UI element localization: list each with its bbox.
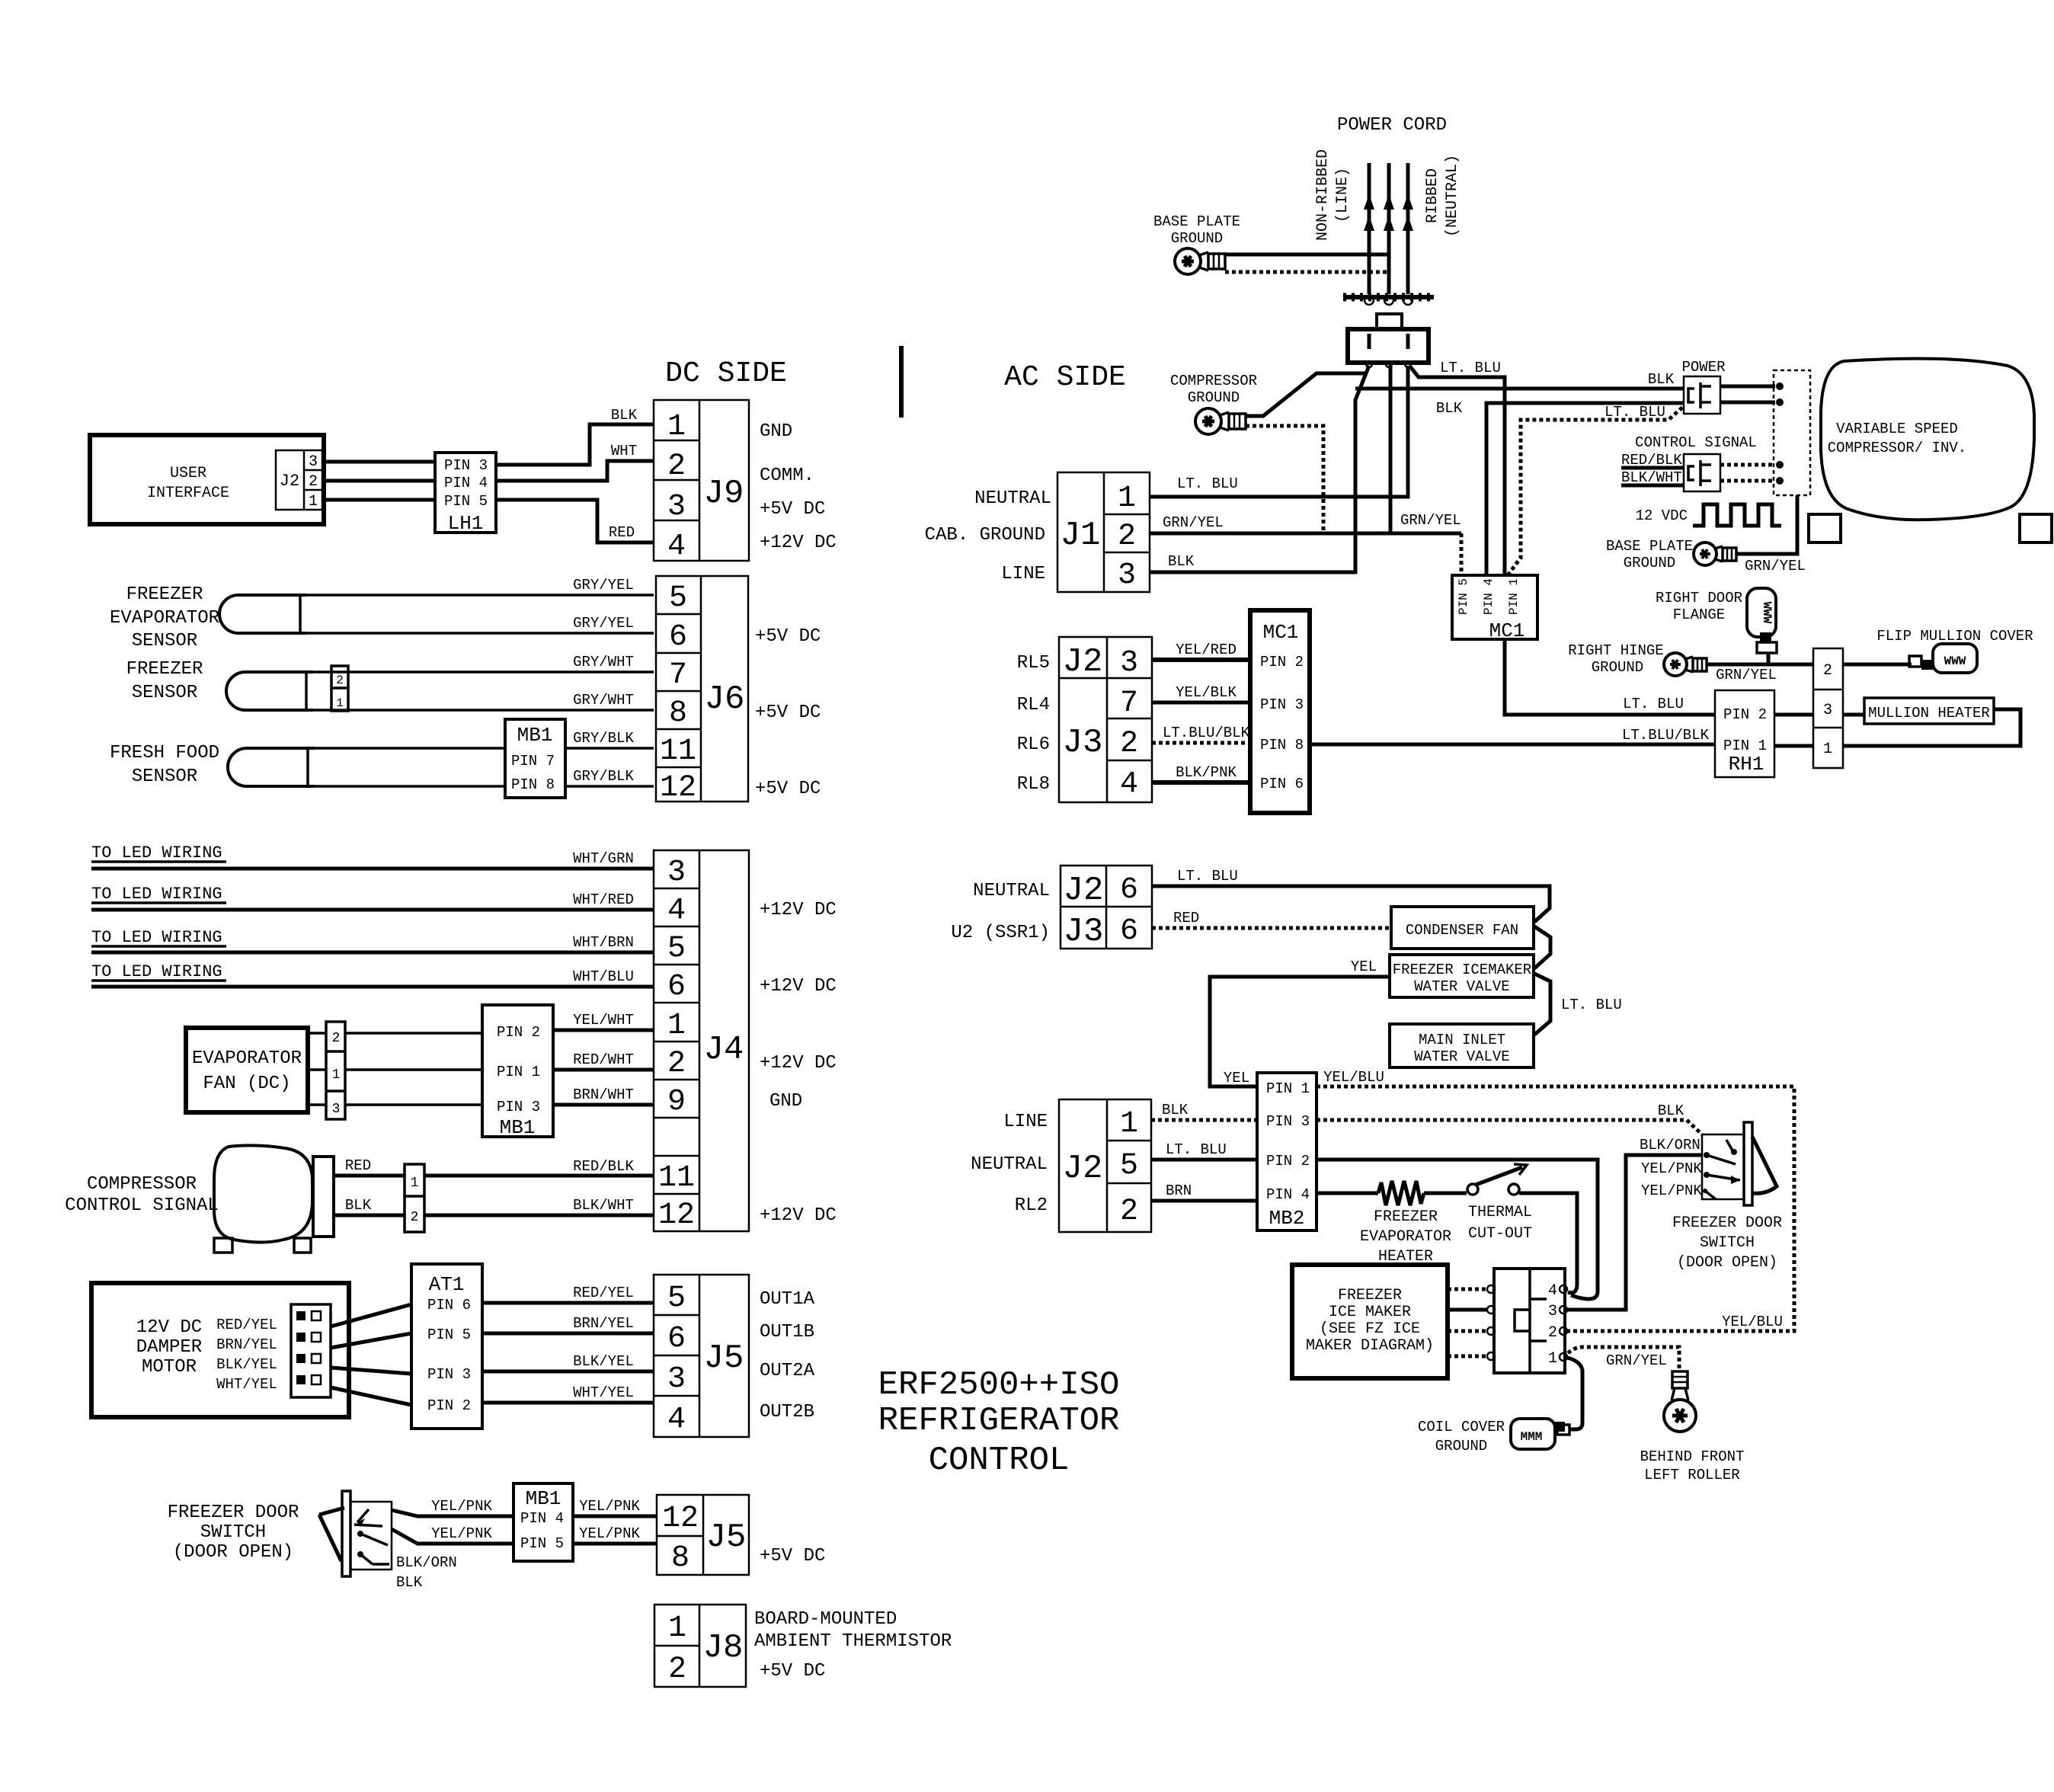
wire LT. BLU chain fan to icemaker valve (1534, 926, 1550, 968)
thermal cut-out switch (1467, 1164, 1527, 1195)
MAIN INLET WATER VALVE box (1390, 1024, 1534, 1067)
compressor control signal label (65, 1174, 219, 1216)
12V DC damper motor box (91, 1283, 349, 1417)
svg-text:WHT/YEL: WHT/YEL (573, 1384, 634, 1401)
svg-text:GROUND: GROUND (1592, 659, 1643, 676)
freezer evaporator sensor bulb (219, 595, 306, 633)
base plate ground label (power cord) (1153, 213, 1240, 247)
svg-text:+12V DC: +12V DC (760, 1053, 837, 1074)
wire damper to AT1 PIN5 (331, 1333, 411, 1348)
svg-text:PIN 4: PIN 4 (520, 1510, 564, 1527)
svg-text:OUT1A: OUT1A (760, 1289, 815, 1310)
svg-text:(LINE): (LINE) (1334, 168, 1352, 222)
svg-text:SENSOR: SENSOR (132, 631, 197, 651)
svg-text:(DOOR OPEN): (DOOR OPEN) (173, 1542, 293, 1563)
wire ice maker to connector t1 (1448, 1352, 1495, 1360)
svg-text:3: 3 (309, 453, 318, 471)
svg-text:BLK/ORN: BLK/ORN (396, 1554, 457, 1571)
base plate ground lug (inverter) (1694, 542, 1736, 565)
wire base plate ground to cord (upper) (1225, 253, 1387, 257)
svg-text:MULLION HEATER: MULLION HEATER (1868, 705, 1990, 722)
svg-text:FREEZER DOOR: FREEZER DOOR (1672, 1214, 1782, 1232)
wire GRY/YEL to J6 pin6 (306, 615, 654, 633)
svg-text:RIGHT HINGE: RIGHT HINGE (1568, 642, 1663, 659)
wire line branch to MC1 PIN4 (1486, 403, 1684, 577)
wire TO LED WIRING 4 (WHT/BLU) to J4 pin6 (91, 962, 654, 987)
wire mullion connector 2 to flip mullion cover (1843, 663, 1912, 667)
svg-text:6: 6 (667, 1322, 686, 1356)
svg-text:YEL/BLU: YEL/BLU (1323, 1069, 1384, 1086)
svg-text:PIN 5: PIN 5 (520, 1535, 564, 1552)
inverter foot right (2020, 514, 2052, 542)
svg-text:VARIABLE SPEED: VARIABLE SPEED (1836, 421, 1958, 437)
svg-text:YEL/PNK: YEL/PNK (431, 1525, 492, 1542)
svg-text:OUT1B: OUT1B (760, 1322, 814, 1342)
wire J2-3 to LH1 PIN3 (322, 460, 435, 464)
svg-text:+12V DC: +12V DC (760, 533, 837, 553)
svg-text:EVAPORATOR: EVAPORATOR (192, 1048, 302, 1069)
svg-text:DC SIDE: DC SIDE (665, 357, 787, 390)
svg-text:RL6: RL6 (1017, 734, 1050, 755)
svg-text:J8: J8 (703, 1629, 744, 1667)
label YEL/PNK (AC switch upper) (1641, 1160, 1702, 1177)
svg-text:2: 2 (411, 1210, 419, 1225)
base plate ground label (inverter) (1606, 538, 1693, 571)
svg-text:TO LED WIRING: TO LED WIRING (91, 843, 222, 862)
svg-text:MC1: MC1 (1489, 619, 1525, 642)
wire BLK compressor to connector pin2 (334, 1197, 405, 1215)
svg-text:1: 1 (309, 493, 318, 510)
svg-text:PIN 6: PIN 6 (1260, 776, 1304, 792)
svg-text:4: 4 (667, 530, 686, 564)
inline connector MB1 (fan) (482, 1005, 553, 1139)
wire RH1 PIN1 to mullion connector 1 (1774, 744, 1813, 748)
wire RED/WHT MB1 to J4 pin2 (553, 1051, 654, 1070)
svg-text:PIN 2: PIN 2 (497, 1024, 540, 1041)
svg-text:PIN 3: PIN 3 (497, 1099, 540, 1115)
svg-text:YEL/PNK: YEL/PNK (1641, 1182, 1702, 1199)
svg-text:6: 6 (1120, 914, 1138, 949)
svg-text:1: 1 (667, 1009, 686, 1043)
svg-text:CONDENSER FAN: CONDENSER FAN (1406, 922, 1518, 939)
svg-text:4: 4 (1120, 767, 1138, 802)
power cord wire (neutral) (1403, 163, 1413, 294)
svg-text:PIN 3: PIN 3 (427, 1366, 471, 1383)
svg-text:GRY/BLK: GRY/BLK (573, 730, 634, 747)
wire J2-1 to LH1 PIN5 (322, 498, 435, 502)
label NON-RIBBED (LINE) (1314, 149, 1352, 241)
svg-text:BOARD-MOUNTED: BOARD-MOUNTED (754, 1609, 897, 1630)
right hinge ground lug (1664, 653, 1707, 676)
wire power connector pin2 to inverter (1720, 398, 1784, 406)
svg-text:1: 1 (1120, 1107, 1138, 1141)
wire fan connector to MB1 PIN2 (345, 1032, 482, 1035)
svg-text:1: 1 (1823, 741, 1832, 758)
svg-text:BRN/YEL: BRN/YEL (216, 1336, 277, 1353)
svg-text:5: 5 (669, 581, 687, 616)
svg-text:GRN/YEL: GRN/YEL (1163, 514, 1224, 531)
COIL COVER GROUND label (1418, 1419, 1505, 1454)
wire RED/BLK control stub (1621, 452, 1684, 469)
svg-text:SENSOR: SENSOR (132, 766, 197, 787)
svg-text:TO LED WIRING: TO LED WIRING (91, 928, 222, 947)
svg-text:J3: J3 (1064, 913, 1104, 951)
svg-text:GRN/YEL: GRN/YEL (1716, 667, 1777, 683)
wire BLK J2-1 to MB2 PIN3 (1151, 1102, 1257, 1120)
svg-text:NON-RIBBED: NON-RIBBED (1314, 149, 1332, 241)
wire GRY/BLK to J6 pin11 (565, 730, 654, 748)
svg-text:2: 2 (668, 1653, 686, 1687)
svg-text:+12V DC: +12V DC (760, 1205, 837, 1226)
svg-text:J5: J5 (706, 1518, 747, 1557)
wire GRY/WHT to J6 pin8 (313, 692, 654, 710)
svg-text:DAMPER: DAMPER (136, 1337, 202, 1358)
wire RED compressor to connector pin1 (334, 1157, 405, 1176)
svg-text:J2: J2 (1064, 872, 1104, 910)
label RL5 (1017, 653, 1050, 674)
wire fan pin1 stub (308, 1068, 326, 1071)
svg-text:BASE PLATE: BASE PLATE (1606, 538, 1693, 555)
wire YEL/WHT MB1 to J4 pin1 (553, 1012, 654, 1030)
wire YEL/BLU MB2 PIN1 to freezer icemaker net (1317, 1069, 1794, 1331)
svg-text:INTERFACE: INTERFACE (147, 485, 229, 502)
label +5V DC (J9-3) (760, 499, 825, 520)
control signal connector (1684, 454, 1720, 491)
svg-text:THERMAL: THERMAL (1468, 1204, 1532, 1221)
svg-text:BLK: BLK (345, 1197, 372, 1214)
freezer evaporator sensor label (110, 584, 219, 651)
compressor body (214, 1145, 312, 1242)
connector J2 (line/neutral/RL2) (1059, 1099, 1151, 1232)
svg-text:YEL/BLU: YEL/BLU (1722, 1314, 1783, 1330)
svg-text:PIN 3: PIN 3 (1260, 696, 1304, 713)
svg-text:BLK: BLK (1162, 1102, 1189, 1118)
svg-text:GRY/YEL: GRY/YEL (573, 615, 634, 632)
svg-text:2: 2 (1548, 1324, 1557, 1342)
wire LT. BLU neutral to MC1 PIN1 (1409, 360, 1505, 577)
label LINE (J1-3) (1001, 564, 1045, 584)
THERMAL CUT-OUT label (1468, 1204, 1532, 1243)
svg-text:SWITCH: SWITCH (200, 1522, 266, 1543)
svg-text:BLK: BLK (611, 407, 638, 424)
svg-text:CONTROL SIGNAL: CONTROL SIGNAL (65, 1195, 219, 1216)
svg-text:GRN/YEL: GRN/YEL (1606, 1352, 1667, 1369)
svg-text:PIN 5: PIN 5 (444, 493, 488, 510)
inverter terminal box (1774, 370, 1810, 495)
svg-text:BLK/YEL: BLK/YEL (573, 1353, 634, 1370)
svg-text:EVAPORATOR: EVAPORATOR (1360, 1228, 1451, 1246)
flip mullion cover symbol (1909, 644, 1977, 673)
svg-text:POWER: POWER (1681, 359, 1725, 376)
wire icemaker terminal 1 to roller ground (1568, 1347, 1679, 1371)
svg-text:6: 6 (669, 620, 687, 654)
svg-text:LINE: LINE (1001, 564, 1045, 584)
svg-text:WATER VALVE: WATER VALVE (1414, 978, 1509, 995)
wire GRN/YEL base plate ground to inverter (1736, 495, 1806, 574)
svg-text:CUT-OUT: CUT-OUT (1468, 1225, 1532, 1243)
wire fan pin3 stub (308, 1103, 326, 1106)
wire BLK/YEL AT1 to J5 pin3 (482, 1353, 654, 1371)
svg-text:7: 7 (669, 658, 687, 693)
wire ice maker to connector t2 (1448, 1327, 1495, 1335)
wire LT. BLU J2-6 to condenser fan chain (1152, 868, 1550, 922)
svg-text:FREEZER: FREEZER (1374, 1208, 1438, 1226)
connector RH1 (1715, 690, 1774, 777)
evaporator fan box (186, 1028, 308, 1112)
svg-text:LT. BLU: LT. BLU (1440, 360, 1501, 376)
svg-text:+5V DC: +5V DC (755, 702, 821, 723)
svg-text:PIN 1: PIN 1 (1723, 738, 1767, 754)
svg-text:LT. BLU: LT. BLU (1166, 1141, 1227, 1158)
svg-text:WHT: WHT (611, 443, 637, 459)
svg-text:GRY/YEL: GRY/YEL (573, 577, 634, 594)
title ERF2500++ISO REFRIGERATOR CONTROL (878, 1366, 1120, 1480)
damper motor pin header (291, 1304, 331, 1397)
svg-text:GRN/YEL: GRN/YEL (1400, 512, 1461, 529)
wire GRY/BLK to J6 pin12 (565, 768, 654, 786)
svg-text:(SEE FZ ICE: (SEE FZ ICE (1320, 1320, 1420, 1338)
wire LT. BLU J1-1 to plug neutral pin (1150, 366, 1408, 497)
svg-text:3: 3 (667, 1362, 686, 1397)
freezer sensor inline connector 2/1 (331, 666, 348, 711)
freezer sensor bulb (226, 672, 313, 710)
svg-text:BLK/WHT: BLK/WHT (1621, 469, 1682, 486)
svg-text:MB1: MB1 (517, 724, 553, 747)
AC SIDE header label (1004, 361, 1126, 394)
svg-text:MB1: MB1 (526, 1487, 561, 1510)
svg-text:SENSOR: SENSOR (132, 683, 197, 703)
wire YEL/PNK switch to MB1 PIN4 (392, 1498, 513, 1516)
svg-text:1: 1 (411, 1176, 419, 1191)
compressor terminal bar (313, 1157, 334, 1237)
wire RED from LH1 PIN5 to J9 pin4 (496, 500, 654, 542)
svg-text:6: 6 (667, 970, 686, 1004)
wire GRY/WHT to J6 pin7 (313, 654, 654, 672)
label YEL/PNK (AC switch lower) (1641, 1182, 1702, 1199)
power plug body (1348, 314, 1429, 367)
svg-text:PIN 5: PIN 5 (427, 1326, 471, 1343)
svg-text:8: 8 (671, 1541, 689, 1576)
wire heater to thermal cut-out (1424, 1192, 1467, 1195)
svg-text:2: 2 (309, 473, 318, 491)
svg-text:RL4: RL4 (1017, 695, 1050, 715)
svg-text:11: 11 (658, 1161, 695, 1195)
mullion connector strip 2/3/1 (1813, 648, 1843, 768)
wire BLK J1-3 to plug line pin (1150, 366, 1369, 572)
svg-text:WHT/BRN: WHT/BRN (573, 934, 634, 951)
CONDENSER FAN box (1391, 907, 1534, 949)
svg-text:3: 3 (667, 490, 686, 524)
wire LT. BLU J2-5 to MB2 PIN2 (1151, 1141, 1257, 1160)
svg-text:12: 12 (662, 1502, 699, 1536)
svg-text:TO LED WIRING: TO LED WIRING (91, 885, 222, 904)
svg-text:FREEZER: FREEZER (1338, 1287, 1402, 1304)
svg-text:LEFT ROLLER: LEFT ROLLER (1644, 1467, 1739, 1483)
svg-text:FLANGE: FLANGE (1673, 606, 1725, 623)
svg-text:3: 3 (667, 856, 686, 890)
svg-text:FAN (DC): FAN (DC) (203, 1074, 290, 1094)
base plate ground lug (power cord) (1175, 248, 1225, 274)
label +12V DC (J9-4) (760, 533, 837, 553)
svg-text:BRN/YEL: BRN/YEL (573, 1315, 634, 1332)
svg-text:YEL/PNK: YEL/PNK (431, 1498, 492, 1515)
right hinge ground label (1568, 642, 1663, 676)
ice maker connector block (1494, 1269, 1567, 1373)
wire RED/BLK to J4 pin11 (424, 1158, 654, 1176)
svg-text:9: 9 (667, 1085, 686, 1119)
svg-text:5: 5 (667, 932, 686, 966)
svg-text:+12V DC: +12V DC (760, 900, 837, 920)
wire control connector pin2 to inverter (1720, 477, 1784, 485)
svg-text:PIN 2: PIN 2 (1260, 654, 1304, 670)
BEHIND FRONT LEFT ROLLER label (1640, 1448, 1745, 1483)
label U2 (SSR1) (951, 923, 1050, 943)
svg-text:FRESH FOOD: FRESH FOOD (110, 743, 219, 763)
svg-text:AT1: AT1 (429, 1273, 465, 1296)
label +5V DC (J8-2) (760, 1661, 825, 1682)
wire damper to AT1 PIN3 (331, 1368, 411, 1374)
svg-text:GROUND: GROUND (1171, 230, 1223, 247)
wire fan connector to MB1 PIN3 (345, 1103, 482, 1106)
svg-text:BLK/ORN: BLK/ORN (1640, 1137, 1700, 1154)
svg-text:ICE MAKER: ICE MAKER (1329, 1304, 1411, 1321)
svg-text:COMPRESSOR: COMPRESSOR (1170, 373, 1257, 389)
label RL4 (1017, 695, 1050, 715)
wire RH1 PIN2 to mullion connector 3 (1774, 713, 1813, 717)
svg-text:12 VDC: 12 VDC (1636, 507, 1688, 524)
svg-text:BLK: BLK (396, 1574, 423, 1591)
label OUT1A (760, 1289, 815, 1310)
svg-text:RED: RED (609, 524, 635, 541)
evaporator fan inline connector 2/1/3 (326, 1022, 345, 1119)
svg-text:LH1: LH1 (448, 512, 484, 535)
wire fan pin2 stub (308, 1032, 326, 1035)
svg-text:12V DC: 12V DC (136, 1317, 202, 1338)
svg-text:RIGHT DOOR: RIGHT DOOR (1656, 590, 1742, 606)
svg-text:FLIP MULLION COVER: FLIP MULLION COVER (1876, 628, 2033, 645)
wire RED J3-6 to condenser fan (1152, 910, 1391, 928)
wire YEL/RED J2-3 to MC1 PIN2 (1152, 642, 1250, 660)
svg-text:YEL: YEL (1224, 1070, 1249, 1086)
label GND (J9-1) (760, 421, 792, 442)
svg-text:FREEZER: FREEZER (126, 659, 203, 680)
svg-text:WWW: WWW (1944, 654, 1966, 668)
behind front left roller ground lug (1664, 1371, 1696, 1432)
compressor foot left (214, 1238, 232, 1253)
svg-text:(DOOR OPEN): (DOOR OPEN) (1677, 1254, 1777, 1272)
fresh food sensor label (110, 743, 219, 787)
svg-text:6: 6 (1120, 873, 1138, 907)
svg-text:PIN 8: PIN 8 (1260, 737, 1304, 754)
svg-text:1: 1 (1548, 1350, 1557, 1368)
svg-text:J5: J5 (704, 1339, 744, 1378)
wire GRN/YEL right hinge ground to mullion connector 2 (1707, 664, 1813, 683)
freezer door switch (AC side) symbol (1702, 1122, 1777, 1205)
svg-text:1: 1 (668, 1611, 686, 1646)
connector MC1 (relay side) (1250, 610, 1310, 813)
FREEZER ICEMAKER WATER VALVE box (1390, 955, 1534, 997)
label RIBBED (NEUTRAL) (1424, 155, 1461, 237)
wire YEL/PNK MB1 to J5 pin8 (573, 1525, 657, 1544)
svg-text:J6: J6 (705, 680, 745, 718)
POWER connector (1684, 376, 1720, 414)
label board-mounted ambient thermistor (754, 1609, 952, 1652)
svg-text:USER: USER (170, 465, 206, 482)
CONTROL SIGNAL label (1635, 434, 1757, 451)
svg-text:1: 1 (667, 410, 686, 444)
svg-text:COMPRESSOR: COMPRESSOR (87, 1174, 197, 1195)
svg-text:5: 5 (1120, 1149, 1138, 1183)
svg-text:3: 3 (1823, 702, 1832, 719)
connector J8 (654, 1605, 746, 1687)
svg-text:OUT2B: OUT2B (760, 1402, 814, 1422)
svg-text:BLK/YEL: BLK/YEL (216, 1356, 277, 1373)
wire BLK/WHT to J4 pin12 (424, 1197, 654, 1215)
svg-text:BRN: BRN (1166, 1182, 1192, 1199)
wire power connector pin1 to inverter (1720, 382, 1784, 390)
svg-text:WWW: WWW (1760, 602, 1774, 624)
svg-text:MAIN INLET: MAIN INLET (1419, 1032, 1505, 1048)
wire GRN/YEL ground net J1-2 (1150, 364, 1461, 577)
wire BLK MB2 PIN3 to freezer door switch (1317, 1102, 1702, 1134)
svg-text:BLK: BLK (1648, 371, 1675, 388)
12 VDC pulse label (1636, 504, 1781, 526)
wire YEL/PNK switch to MB1 PIN5 (392, 1525, 513, 1544)
inline connector AT1 (411, 1264, 482, 1429)
svg-text:AC SIDE: AC SIDE (1004, 361, 1126, 394)
inline connector MB2 (1257, 1073, 1317, 1230)
svg-text:CAB. GROUND: CAB. GROUND (925, 525, 1045, 546)
svg-text:LT.BLU/BLK: LT.BLU/BLK (1163, 725, 1250, 741)
power cord junction bar (1343, 296, 1434, 305)
label +5V DC (J5-8) (760, 1546, 825, 1566)
wire fresh food sensor to MB1 PIN8 (315, 785, 505, 788)
wire base plate ground to cord (lower) (1225, 270, 1387, 274)
wire WHT/YEL AT1 to J5 pin4 (482, 1384, 654, 1403)
connector J2-6/J3-6 (1061, 866, 1152, 951)
svg-text:1: 1 (1118, 482, 1136, 516)
svg-text:YEL/PNK: YEL/PNK (1641, 1160, 1702, 1177)
svg-text:1: 1 (332, 1067, 341, 1083)
svg-text:11: 11 (660, 734, 696, 769)
svg-text:LT. BLU: LT. BLU (1177, 475, 1238, 492)
svg-text:BASE PLATE: BASE PLATE (1153, 213, 1240, 230)
wire thermal cut-out to icemaker terminal 4 (1519, 1193, 1577, 1293)
svg-text:RED: RED (1173, 910, 1199, 926)
wire YEL/PNK MB1 to J5 pin12 (573, 1498, 657, 1516)
svg-text:RL5: RL5 (1017, 653, 1050, 674)
label OUT2A (760, 1361, 815, 1381)
svg-text:3: 3 (1548, 1303, 1557, 1320)
svg-text:2: 2 (1120, 1195, 1138, 1229)
svg-text:RED/BLK: RED/BLK (573, 1158, 634, 1175)
label +12V DC (J4-6) (760, 976, 837, 997)
svg-text:U2 (SSR1): U2 (SSR1) (951, 923, 1050, 943)
freezer door switch (AC side) label (1672, 1214, 1782, 1272)
svg-text:WHT/BLU: WHT/BLU (573, 968, 634, 985)
POWER connector label (1681, 359, 1725, 376)
connector J6 (656, 576, 748, 805)
power cord wire (ground) (1384, 163, 1394, 294)
svg-text:PIN 7: PIN 7 (511, 753, 555, 770)
label +5V DC (J6-12) (755, 779, 821, 799)
label RL6 (1017, 734, 1050, 755)
svg-text:MB1: MB1 (500, 1116, 536, 1139)
user interface board (90, 435, 324, 524)
connector J9 (654, 400, 749, 564)
svg-text:3: 3 (332, 1102, 341, 1117)
label LINE (J2-1) (1003, 1112, 1048, 1132)
